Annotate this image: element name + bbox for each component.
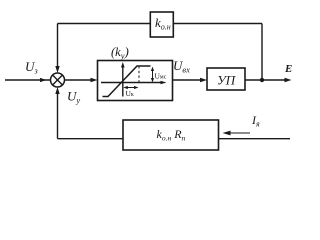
wire bottom input from right (219, 138, 291, 140)
arrowhead Umc top (151, 67, 154, 72)
arrowhead Umc bottom (151, 78, 154, 83)
wire NL output Uvx (173, 79, 203, 81)
wire top feedback right segment (173, 23, 262, 25)
arrowhead into summing bottom (55, 87, 59, 94)
svg-text:(kу): (kу) (111, 44, 129, 61)
svg-text:kо.н Rп: kо.н Rп (157, 127, 186, 143)
arrowhead current Iya (223, 131, 231, 136)
arrowhead into summing left (40, 78, 47, 82)
arrowhead Uk right (134, 86, 139, 89)
wire UP output to E (245, 79, 288, 81)
arrowhead into UP block (200, 78, 207, 82)
arrowhead into summing top (55, 66, 59, 73)
svg-text:E: E (284, 63, 292, 75)
measure arrow Uk (126, 87, 136, 89)
arrowhead axis right (161, 81, 167, 85)
block NL saturation (ky) (98, 61, 173, 101)
arrowhead output E (285, 78, 292, 82)
wire vertical up from junction (261, 24, 263, 81)
block konRp bottom (123, 120, 219, 150)
current arrow Iya shaft (228, 132, 250, 134)
wire down to summing junction (57, 24, 59, 70)
wire input Uz (5, 79, 50, 81)
arrowhead axis vertical top (121, 62, 125, 68)
summing junction S1 (51, 73, 65, 87)
wire up to summing junction bottom (57, 91, 59, 139)
block U1 UP (207, 68, 245, 90)
arrowhead into NL block (91, 78, 98, 82)
svg-text:УП: УП (217, 73, 237, 88)
node junction after UP (260, 78, 264, 82)
wire bottom feedback left segment (58, 138, 124, 140)
measure arrow Umc (152, 69, 154, 81)
wire summing output Uy (65, 79, 95, 81)
arrowhead Uk left (123, 86, 128, 89)
saturation curve (103, 66, 151, 97)
dashed drop line (138, 66, 140, 83)
axis vertical inside NL (122, 64, 124, 97)
block kon top (150, 12, 173, 37)
axis horizontal inside NL (101, 82, 163, 84)
wire top feedback left segment (58, 23, 151, 25)
